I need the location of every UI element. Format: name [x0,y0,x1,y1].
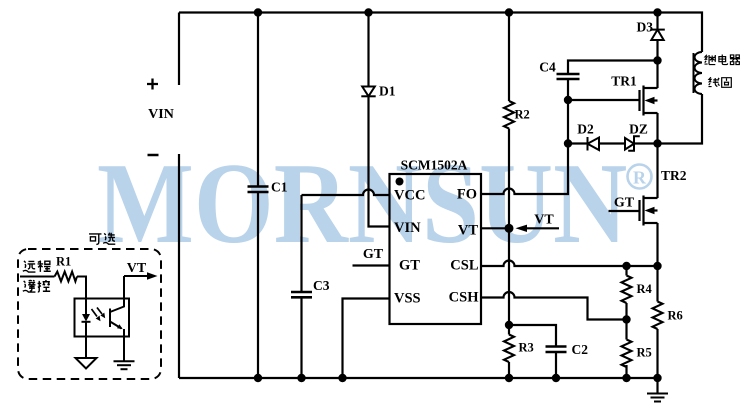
svg-text:R6: R6 [668,309,683,323]
svg-text:VIN: VIN [148,107,174,122]
svg-text:R3: R3 [519,341,534,355]
svg-text:R5: R5 [637,346,652,360]
svg-text:CSL: CSL [450,258,479,274]
svg-text:CSH: CSH [449,290,480,306]
svg-text:TR2: TR2 [661,168,687,183]
svg-text:C2: C2 [572,342,589,357]
svg-text:VCC: VCC [394,188,425,204]
svg-text:R1: R1 [56,255,71,269]
svg-text:R: R [633,168,647,188]
svg-text:TR1: TR1 [611,74,637,89]
svg-text:VSS: VSS [394,291,421,307]
svg-text:VIN: VIN [394,220,421,236]
svg-text:C4: C4 [539,60,556,75]
svg-text:D3: D3 [637,20,654,35]
svg-text:R2: R2 [515,108,530,122]
svg-text:C3: C3 [313,278,330,293]
svg-text:D2: D2 [577,122,594,137]
svg-text:VT: VT [127,261,147,276]
svg-text:D1: D1 [379,84,396,99]
svg-text:R4: R4 [637,282,653,296]
svg-text:VT: VT [458,223,478,239]
svg-text:GT: GT [614,196,635,211]
svg-text:GT: GT [363,247,384,262]
svg-text:FO: FO [457,187,477,203]
svg-text:C1: C1 [271,180,288,195]
svg-text:GT: GT [399,258,420,274]
svg-text:SCM1502A: SCM1502A [401,158,468,173]
svg-text:DZ: DZ [629,122,648,137]
svg-text:VT: VT [534,213,554,228]
